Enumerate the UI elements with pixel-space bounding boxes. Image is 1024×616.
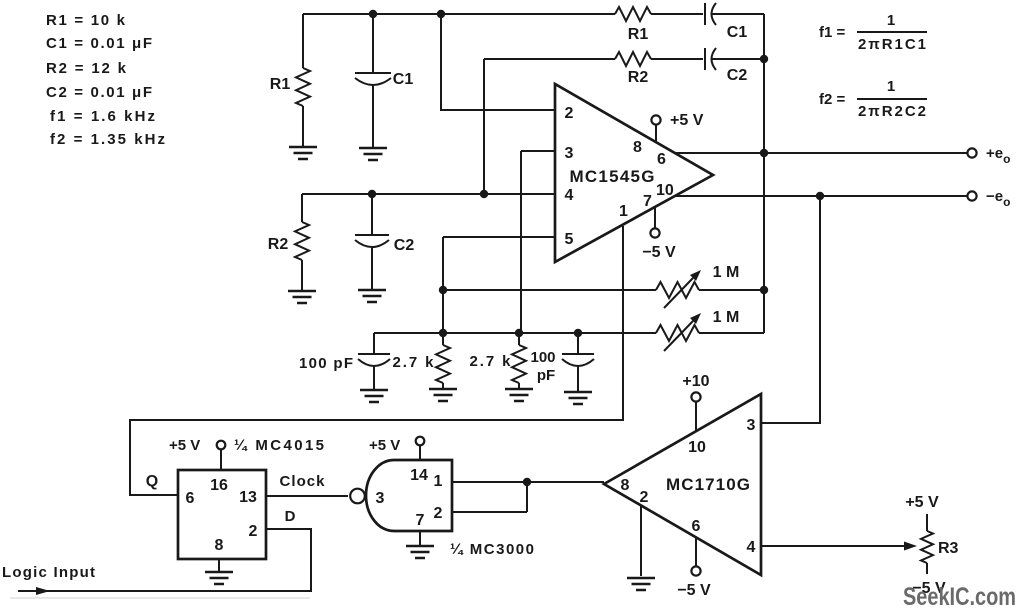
svg-text:C2: C2 <box>727 67 748 84</box>
ground for C1 <box>359 148 387 160</box>
ground for flip-flop pin 8 <box>205 559 233 584</box>
node junction row333/2.7k left <box>439 329 447 337</box>
svg-text:R2: R2 <box>628 69 649 86</box>
svg-text:3: 3 <box>747 417 756 434</box>
wire pin 10 output -eo <box>675 195 967 197</box>
flip-flop U2 1/4 MC4015 <box>178 470 266 559</box>
svg-text:3: 3 <box>376 490 385 507</box>
svg-text:2.7 k: 2.7 k <box>470 353 512 370</box>
node junction pin2 branch/top net <box>437 10 445 18</box>
capacitor C1 (vertical) <box>355 14 413 148</box>
wire comparator pin 2 to ground <box>640 505 642 576</box>
svg-text:D: D <box>285 508 296 525</box>
wire pin 3 <box>521 151 555 333</box>
wire clock from pin 13 to NAND bubble <box>266 495 348 497</box>
svg-text:f2 = 1.35 kHz: f2 = 1.35 kHz <box>50 131 165 148</box>
svg-text:1: 1 <box>434 473 443 490</box>
wire comparator pin 4 output with arrow to R3 <box>761 542 917 551</box>
svg-text:C1: C1 <box>727 24 748 41</box>
svg-text:R1: R1 <box>628 26 649 43</box>
node junction C1/top net <box>369 10 377 18</box>
svg-text:MC1710G: MC1710G <box>666 475 750 494</box>
resistor 2.7 k (right) <box>470 333 527 389</box>
wire C1 to right bus corner <box>712 13 764 15</box>
svg-text:7: 7 <box>416 512 425 529</box>
svg-text:14: 14 <box>410 467 428 484</box>
svg-text:2.7 k: 2.7 k <box>393 354 435 371</box>
svg-text:8: 8 <box>621 477 630 494</box>
svg-text:6: 6 <box>657 151 666 168</box>
svg-text:R1: R1 <box>270 76 291 93</box>
wire top net from R1 top to feedback resistor R1 <box>303 13 615 15</box>
wire row y333 <box>374 332 656 334</box>
svg-text:f1 =: f1 = <box>819 24 846 41</box>
svg-text:2: 2 <box>434 505 443 522</box>
svg-text:R1 = 10 k: R1 = 10 k <box>46 12 126 29</box>
svg-text:10: 10 <box>688 439 706 456</box>
+5 V supply terminal U1 pin 8 <box>651 112 703 142</box>
ground for C2 <box>358 290 386 302</box>
wire feedback R1 to C1 <box>651 13 703 15</box>
node junction pin5 branch/row290 <box>439 286 447 294</box>
node junction row333/2.7k right <box>515 329 523 337</box>
svg-text:C1: C1 <box>393 71 414 88</box>
resistor 2.7 k (left) <box>393 333 451 389</box>
capacitor 100 pF (left) <box>299 333 390 390</box>
resistor R1 (vertical) <box>270 14 310 147</box>
-5 V supply terminal comparator pin 6 <box>677 537 711 599</box>
svg-text:+5 V: +5 V <box>169 437 200 454</box>
wire NAND pin 2 joins pin 1 net <box>452 482 527 512</box>
ground for NAND pin 7 <box>406 531 434 558</box>
capacitor C2 (feedback, horizontal) <box>705 48 747 84</box>
ground for R1 <box>289 147 317 159</box>
svg-text:2: 2 <box>565 105 574 122</box>
potentiometer R3 <box>921 514 959 574</box>
svg-text:Clock: Clock <box>280 473 326 490</box>
wire D input from pin 2 down to logic input line <box>18 529 311 591</box>
ground for R2 <box>288 291 316 303</box>
formula f1 = 1/(2piR1C1) <box>819 12 927 53</box>
svg-text:1: 1 <box>887 12 895 29</box>
svg-text:+5 V: +5 V <box>905 494 939 511</box>
node junction C2/pin4 row <box>368 190 376 198</box>
+5 V supply terminal flip-flop pin 16 <box>169 437 225 470</box>
node junction pin6/right bus <box>760 149 768 157</box>
svg-text:6: 6 <box>692 518 701 535</box>
wire pin 1 down and left to flip-flop Q <box>130 226 623 495</box>
terminal -eo <box>967 191 976 200</box>
svg-text:3: 3 <box>565 145 574 162</box>
node junction -eo/comparator branch <box>816 192 824 200</box>
resistor R2 (vertical) <box>268 194 309 291</box>
svg-text:+10: +10 <box>682 373 709 390</box>
node junction row333/100pF right <box>574 329 582 337</box>
svg-text:8: 8 <box>633 139 642 156</box>
svg-text:6: 6 <box>186 490 195 507</box>
ground for 2.7 k left <box>429 389 457 401</box>
terminal +eo <box>967 148 976 157</box>
scan artifact line <box>10 597 310 599</box>
resistor R1 (feedback, horizontal) <box>615 7 651 21</box>
svg-text:1 M: 1 M <box>713 264 740 281</box>
svg-text:10: 10 <box>656 182 674 199</box>
wire pot upper to right bus <box>699 289 764 291</box>
capacitor 100 pF (right) <box>530 333 594 392</box>
ground for comparator pin 2 <box>627 578 655 590</box>
-5 V supply terminal U1 pin 7 <box>642 207 676 261</box>
wire pot lower to right bus <box>699 332 764 334</box>
svg-text:1: 1 <box>887 78 895 95</box>
comparator U4 MC1710G <box>604 394 761 575</box>
svg-text:1: 1 <box>619 203 628 220</box>
svg-text:MC1545G: MC1545G <box>570 167 655 186</box>
ground for 100 pF left <box>360 390 388 402</box>
svg-text:100: 100 <box>530 349 555 366</box>
capacitor C2 (vertical) <box>355 194 414 290</box>
wire pin 6 output +eo <box>675 152 967 154</box>
potentiometer 1 M (upper) <box>656 264 739 308</box>
wire NAND pin 1 to comparator pin 8 <box>452 481 604 483</box>
svg-text:2: 2 <box>640 489 649 506</box>
node junction feedback/pin4 row <box>480 190 488 198</box>
wire row y290 to pot 1M upper <box>443 289 656 291</box>
svg-text:1 M: 1 M <box>713 309 740 326</box>
svg-text:R3: R3 <box>938 540 959 557</box>
svg-text:pF: pF <box>537 367 555 384</box>
wire -eo branch down to comparator pin 3 <box>761 196 820 423</box>
op-amp U1 MC1545G <box>555 84 713 262</box>
svg-text:+5 V: +5 V <box>670 112 704 129</box>
wire feedback R2 to C2 <box>651 58 703 60</box>
wire pin2 branch from top net <box>441 14 555 110</box>
wire right bus vertical <box>763 14 765 333</box>
svg-text:−5 V: −5 V <box>642 244 676 261</box>
svg-text:7: 7 <box>643 193 652 210</box>
svg-text:−5 V: −5 V <box>677 582 711 599</box>
svg-text:Logic Input: Logic Input <box>2 564 95 581</box>
svg-text:f2 =: f2 = <box>819 91 846 108</box>
svg-text:2: 2 <box>249 523 258 540</box>
wire feedback row 2 down to pin 4 <box>483 59 485 194</box>
svg-text:16: 16 <box>210 477 228 494</box>
wire feedback row 2 left segment <box>484 58 615 60</box>
wire pin 5 <box>443 237 555 333</box>
svg-text:4: 4 <box>565 187 574 204</box>
svg-text:4: 4 <box>747 539 756 556</box>
ground for 100 pF right <box>564 392 592 404</box>
arrow on logic input wire <box>36 587 50 595</box>
svg-text:5: 5 <box>565 231 574 248</box>
svg-text:R2: R2 <box>268 236 289 253</box>
wire C2 to right bus <box>712 58 764 60</box>
svg-text:8: 8 <box>215 537 224 554</box>
svg-text:13: 13 <box>239 489 257 506</box>
ground for 2.7 k right <box>505 389 533 401</box>
svg-text:100 pF: 100 pF <box>299 355 353 372</box>
node junction pin1/pin2 net <box>523 478 531 486</box>
wire pin 4 row <box>302 193 555 195</box>
node junction pot upper/right bus <box>760 286 768 294</box>
svg-text:+5 V: +5 V <box>369 437 400 454</box>
+10 supply terminal comparator pin 10 <box>682 373 709 431</box>
NAND gate U3 1/4 MC3000 <box>366 460 452 531</box>
capacitor C1 (feedback, horizontal) <box>705 3 747 41</box>
svg-text:R2 = 12 k: R2 = 12 k <box>46 60 127 77</box>
inverter bubble on pin 3 <box>350 489 365 504</box>
+5 V supply terminal NAND pin 14 <box>369 437 424 460</box>
potentiometer 1 M (lower) <box>656 309 739 351</box>
svg-text:SeekIC.com: SeekIC.com <box>903 583 1016 611</box>
node junction C2 row/right bus <box>760 55 768 63</box>
resistor R2 (feedback, horizontal) <box>615 52 651 66</box>
svg-text:C2: C2 <box>394 237 415 254</box>
formula f2 = 1/(2piR2C2) <box>819 78 927 120</box>
svg-text:Q: Q <box>146 473 158 490</box>
